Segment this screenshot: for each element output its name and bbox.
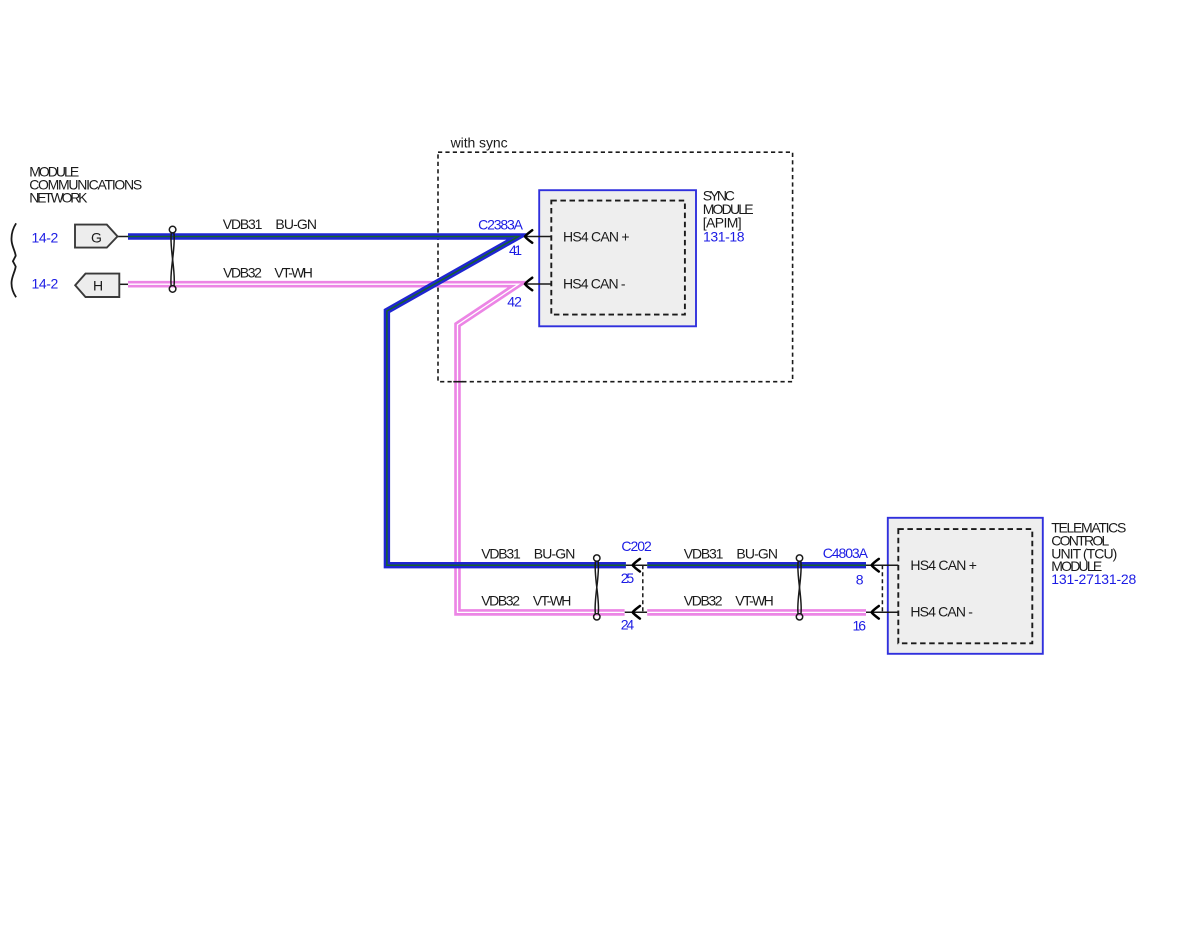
svg-text:14-2: 14-2 [32,230,59,246]
svg-text:VDB31: VDB31 [481,545,521,561]
svg-text:41: 41 [509,242,522,258]
svg-text:131-27131-28: 131-27131-28 [1051,571,1136,587]
svg-text:BU-GN: BU-GN [736,545,778,561]
svg-text:HS4 CAN -: HS4 CAN - [910,603,973,619]
svg-text:VDB31: VDB31 [684,545,724,561]
svg-text:24: 24 [621,617,635,633]
svg-text:H: H [93,277,103,293]
svg-text:131-18: 131-18 [703,228,745,244]
svg-text:VDB32: VDB32 [223,264,262,280]
svg-text:NETWORK: NETWORK [29,190,88,206]
svg-text:with sync: with sync [450,134,508,150]
svg-text:42: 42 [507,293,522,309]
svg-text:HS4 CAN +: HS4 CAN + [563,228,630,244]
svg-text:VT-WH: VT-WH [735,592,774,608]
svg-text:VDB31: VDB31 [223,216,263,232]
svg-text:C2383A: C2383A [478,217,524,233]
svg-text:VT-WH: VT-WH [533,592,572,608]
svg-text:HS4 CAN -: HS4 CAN - [563,275,626,291]
svg-text:G: G [91,230,102,246]
svg-text:BU-GN: BU-GN [534,545,576,561]
svg-text:C202: C202 [621,538,652,554]
svg-text:14-2: 14-2 [32,275,59,291]
svg-text:HS4 CAN +: HS4 CAN + [910,557,977,573]
svg-text:BU-GN: BU-GN [275,216,317,232]
svg-text:VDB32: VDB32 [684,592,723,608]
svg-text:8: 8 [856,571,864,587]
svg-text:25: 25 [621,570,635,586]
svg-text:16: 16 [853,617,867,633]
svg-text:VT-WH: VT-WH [274,264,313,280]
svg-text:C4803A: C4803A [823,545,869,561]
svg-text:VDB32: VDB32 [481,592,520,608]
